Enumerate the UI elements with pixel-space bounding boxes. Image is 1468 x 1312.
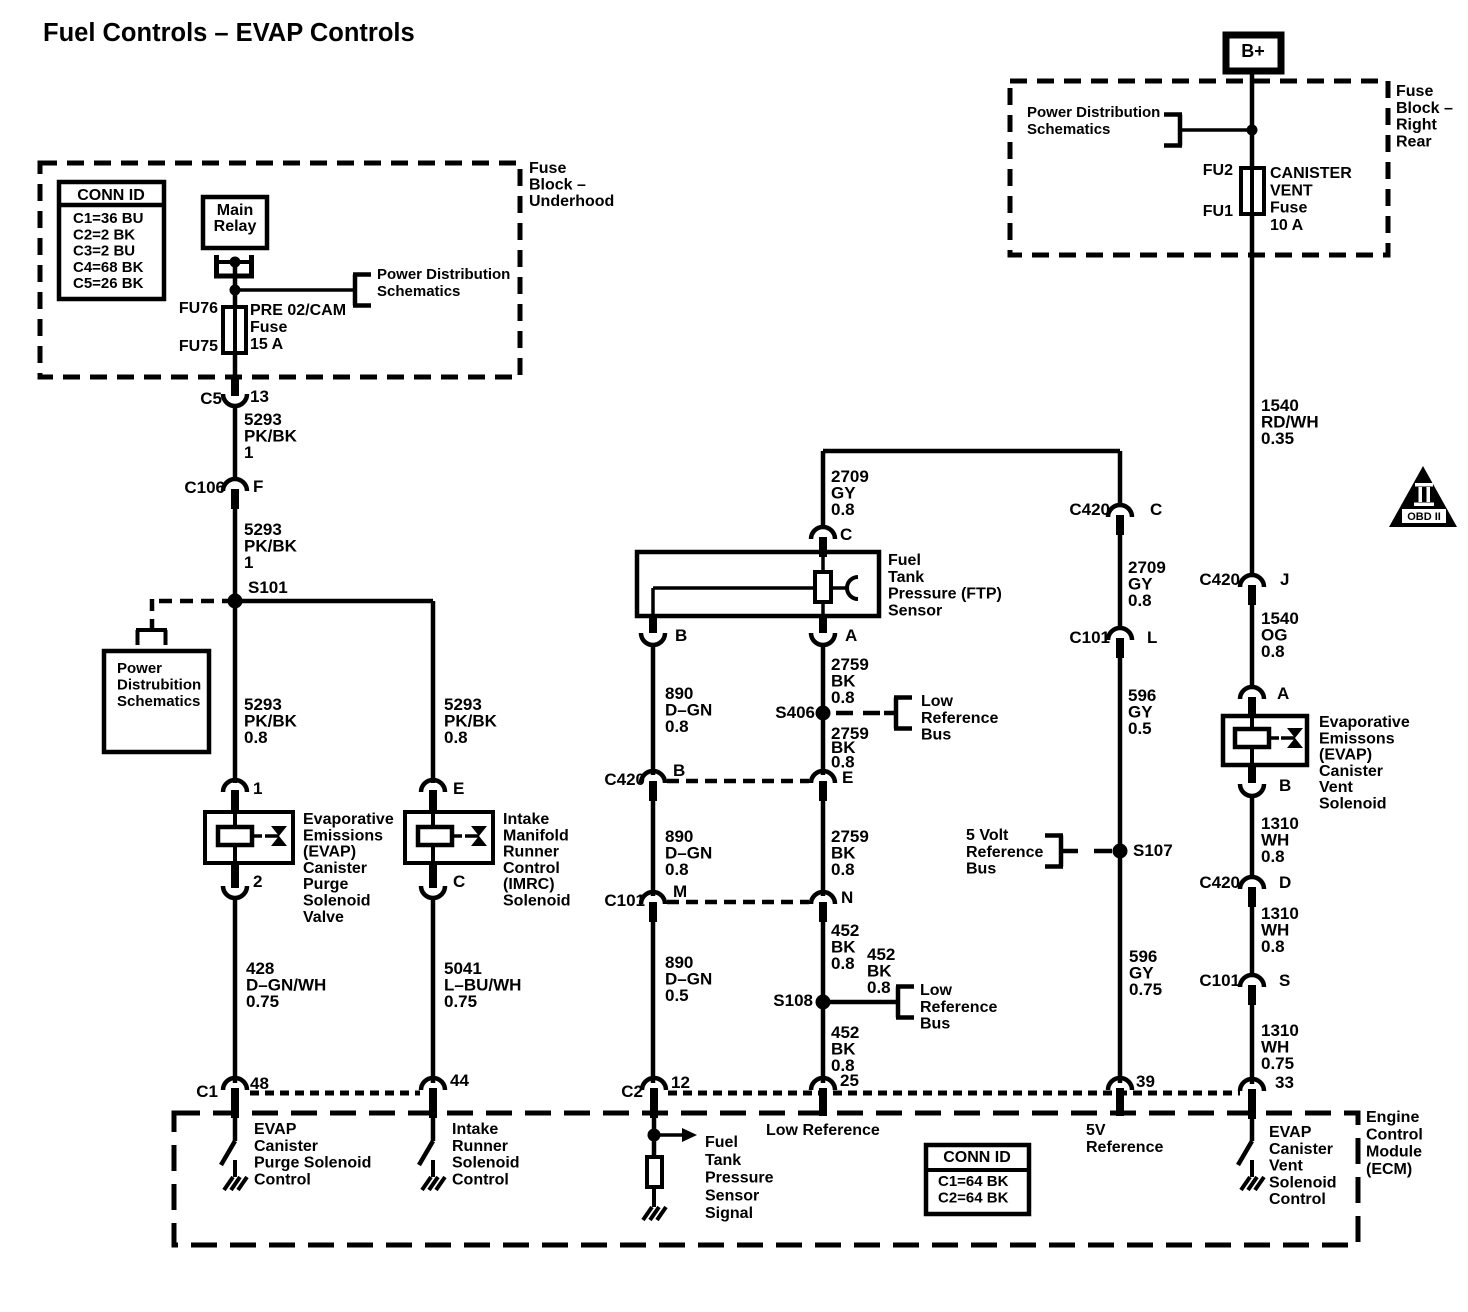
svg-text:D: D [1279,873,1291,892]
svg-text:Control: Control [452,1171,509,1188]
wire 1310 WH 0.8 (D to C101 S) [1250,907,1255,975]
svg-text:C1=64 BK: C1=64 BK [938,1173,1009,1190]
resistor R (FTP pulldown) [647,1157,662,1187]
wire 452 BK 0.8 (N to S108) [821,922,826,1002]
svg-text:Schematics: Schematics [117,693,200,710]
fuse block right rear dashed box [1010,81,1388,255]
svg-text:Solenoid: Solenoid [303,893,371,910]
svg-text:Manifold: Manifold [503,827,569,844]
solenoid L: EVAP canister vent solenoid [1223,716,1307,765]
svg-text:39: 39 [1136,1072,1155,1091]
svg-text:Purge: Purge [303,876,348,893]
wire bracket to S107 [1061,849,1078,854]
svg-text:5V: 5V [1086,1122,1106,1139]
svg-text:Canister: Canister [303,860,367,877]
svg-text:0.75: 0.75 [246,992,279,1011]
wire 890 D-GN 0.5 (M to C2-12) [651,922,656,1083]
connector C101 pin M [641,892,665,904]
svg-text:Evaporative: Evaporative [303,811,394,828]
svg-text:C3=2 BU: C3=2 BU [73,243,135,260]
svg-text:C2=2 BK: C2=2 BK [73,226,135,243]
arrow: fuel tank pressure sensor signal [654,1133,682,1137]
svg-text:B+: B+ [1241,41,1265,61]
svg-text:B: B [673,761,685,780]
wire S101 right branch [235,599,433,604]
svg-text:Control: Control [254,1171,311,1188]
node: junction at B+ feed [1247,125,1258,136]
svg-text:Reference: Reference [966,844,1043,861]
svg-text:1: 1 [244,553,253,572]
svg-text:Distrubition: Distrubition [117,677,201,694]
wire 1540 RD/WH 0.35 [1250,214,1255,575]
svg-text:10 A: 10 A [1270,217,1304,234]
svg-text:(EVAP): (EVAP) [303,844,356,861]
ground (FTP signal) [652,1187,656,1207]
svg-text:Vent: Vent [1269,1158,1303,1175]
svg-text:Fuel Controls – EVAP Controls: Fuel Controls – EVAP Controls [43,19,415,47]
svg-text:Control: Control [503,860,560,877]
svg-text:S107: S107 [1133,841,1173,860]
svg-text:Reference: Reference [920,999,997,1016]
svg-text:C420: C420 [1199,873,1240,892]
node: splice S406 [816,706,831,721]
connector C2 pin 12 [642,1078,666,1090]
FTP sensor internal wire and resistor [821,543,825,572]
wire 596 GY 0.5 (L to S107) [1118,658,1123,851]
wire to power distribution bracket [235,288,353,292]
svg-text:Bus: Bus [920,1016,950,1033]
wire 596 GY 0.75 (S107 to 39) [1118,851,1123,1083]
CONN ID table (ECM) [926,1145,1029,1214]
svg-text:PRE 02/CAM: PRE 02/CAM [250,302,346,319]
wire 890 D-GN 0.8 (B to C420) [651,645,656,775]
svg-text:Solenoid: Solenoid [1269,1174,1337,1191]
svg-text:C1: C1 [196,1082,218,1101]
svg-text:Runner: Runner [503,844,559,861]
svg-text:Underhood: Underhood [529,193,614,210]
svg-text:Canister: Canister [1319,763,1383,780]
svg-text:Fuse: Fuse [250,319,287,336]
svg-text:0.8: 0.8 [444,728,468,747]
connector C1/C2 dotted line (left) [250,1091,420,1096]
svg-text:1: 1 [253,779,262,798]
svg-text:0.8: 0.8 [1128,591,1152,610]
svg-text:N: N [841,888,853,907]
svg-text:Right: Right [1396,117,1438,134]
wire S108 to low reference bus [830,1000,897,1005]
ECM driver: intake runner solenoid control switch [431,1114,436,1141]
bracket: power distribution schematics (underhood) [353,275,358,306]
svg-text:C420: C420 [1199,570,1240,589]
svg-text:33: 33 [1275,1073,1294,1092]
svg-text:C420: C420 [604,770,645,789]
wire 1310 WH 0.8 (B to C420 D) [1250,796,1255,877]
svg-text:Solenoid: Solenoid [503,893,571,910]
svg-text:S101: S101 [248,578,288,597]
wire from relay to junction [233,264,238,290]
svg-text:Solenoid: Solenoid [452,1155,520,1172]
ECM driver: EVAP vent solenoid control switch [1250,1119,1255,1141]
wire 5293 PK/BK 1 (C106 to S101) [233,509,238,601]
connector pin 2 (EVAP purge solenoid) [223,886,247,898]
svg-text:5 Volt: 5 Volt [966,827,1009,844]
wire 2709 GY 0.8 (FTP C up and over) [821,451,826,527]
ground (vent driver) [1250,1160,1254,1177]
svg-text:L: L [1147,628,1157,647]
svg-text:Fuel: Fuel [705,1134,738,1151]
svg-text:Low Reference: Low Reference [766,1122,880,1139]
svg-text:A: A [845,626,857,645]
sensor: fuel tank pressure sensor box [637,552,879,616]
svg-text:Sensor: Sensor [888,602,942,619]
svg-text:Evaporative: Evaporative [1319,714,1410,731]
svg-text:Emissons: Emissons [1319,730,1395,747]
svg-text:Engine: Engine [1366,1109,1419,1126]
svg-text:0.8: 0.8 [867,978,891,997]
wire 2759 BK 0.8 (E to N) [821,801,826,896]
connector C1/C2 dotted line (right) [668,1091,1240,1096]
svg-text:C2=64 BK: C2=64 BK [938,1190,1009,1207]
svg-text:0.8: 0.8 [1261,642,1285,661]
svg-text:A: A [1277,684,1289,703]
svg-text:Reference: Reference [921,710,998,727]
node: splice S101 [228,594,243,609]
connector pin 1 (EVAP purge solenoid) [223,780,247,792]
connector C420 pin J [1240,575,1264,587]
svg-text:0.5: 0.5 [665,986,689,1005]
svg-text:C1=36 BU: C1=36 BU [73,210,143,227]
svg-text:Fuse: Fuse [1270,200,1307,217]
svg-text:C: C [453,872,465,891]
wire FTP signal inside ECM [652,1114,657,1157]
svg-text:Emissions: Emissions [303,827,383,844]
svg-text:M: M [673,882,687,901]
svg-text:0.8: 0.8 [1261,847,1285,866]
svg-text:0.8: 0.8 [831,860,855,879]
svg-text:C101: C101 [1069,628,1110,647]
svg-text:C101: C101 [1199,971,1240,990]
wire junction to fuse FU76 [233,290,238,308]
svg-text:Pressure (FTP): Pressure (FTP) [888,586,1002,603]
svg-text:Vent: Vent [1319,779,1353,796]
svg-text:FU2: FU2 [1203,162,1233,179]
connector C101 pin S [1240,975,1264,987]
svg-text:FU1: FU1 [1203,203,1233,220]
connector pin A (FTP sensor) [819,614,827,633]
svg-text:Block –: Block – [529,177,586,194]
svg-text:Module: Module [1366,1144,1422,1161]
svg-text:Main: Main [217,202,253,219]
bracket: power distribution schematics (right rear) [1178,115,1183,146]
svg-text:48: 48 [250,1074,269,1093]
connector C420 pin D [1240,877,1264,889]
svg-text:Schematics: Schematics [1027,121,1110,138]
power distrubition schematics box [104,651,209,752]
connector pin B (vent solenoid) [1248,764,1256,783]
connector pin B (FTP sensor) [649,614,657,633]
fuse FU76/FU75 PRE O2/CAM 15A [223,307,246,353]
svg-text:VENT: VENT [1270,182,1313,199]
bracket over power distrubition box [136,628,167,632]
svg-text:F: F [253,477,263,496]
power feed B+ [1226,35,1281,71]
svg-text:C101: C101 [604,891,645,910]
svg-text:Control: Control [1269,1191,1326,1208]
svg-text:1: 1 [244,443,253,462]
connector pin A (vent solenoid) [1240,687,1264,699]
svg-text:Valve: Valve [303,909,344,926]
ground (purge driver) [233,1160,237,1177]
svg-text:0.75: 0.75 [444,992,477,1011]
svg-text:Canister: Canister [254,1138,318,1155]
svg-text:Fuel: Fuel [888,552,921,569]
svg-text:Canister: Canister [1269,1141,1333,1158]
svg-text:(EVAP): (EVAP) [1319,747,1372,764]
wire 1540 OG 0.8 (J to A) [1250,605,1255,687]
connector pin 44 [421,1078,445,1090]
wire 2759 BK 0.8 (A to S406) [821,645,826,713]
connector C420 pin C [1108,505,1132,517]
svg-text:Fuse: Fuse [1396,83,1433,100]
svg-text:Reference: Reference [1086,1139,1163,1156]
wire 1310 WH 0.75 (S to 33) [1250,1005,1255,1084]
svg-text:Block –: Block – [1396,100,1453,117]
svg-text:Tank: Tank [888,569,924,586]
wire fuse to connector C5 [233,353,238,378]
svg-text:C5: C5 [200,389,222,408]
fuse block underhood dashed box [40,163,520,377]
svg-text:2: 2 [253,872,262,891]
dashed connector line B-E [667,779,809,784]
svg-text:Fuse: Fuse [529,160,566,177]
relay K: Main Relay box [203,197,267,248]
dashed connector line M-N [667,900,809,905]
node: junction to power distribution [230,285,241,296]
wire 452 BK 0.8 (S108 to 25) [821,1002,826,1083]
svg-text:EVAP: EVAP [1269,1124,1312,1141]
wire 5293 PK/BK 1 (C5 to C106) [233,405,238,480]
svg-text:0.8: 0.8 [665,717,689,736]
svg-text:CANISTER: CANISTER [1270,165,1352,182]
solenoid L: IMRC solenoid [405,812,493,863]
bracket: 5 volt reference bus [1059,836,1064,867]
svg-text:0.8: 0.8 [244,728,268,747]
svg-text:13: 13 [250,387,269,406]
svg-text:0.8: 0.8 [831,688,855,707]
wire 5041 L-BU/WH 0.75 [431,896,436,1083]
svg-text:Low: Low [921,693,954,710]
connector pin E (IMRC solenoid) [421,780,445,792]
connector C420 pin E [811,771,835,783]
FTP sensor internal line to pin B [653,586,817,590]
svg-text:Sensor: Sensor [705,1187,759,1204]
svg-text:C: C [1150,500,1162,519]
wire 428 D-GN/WH 0.75 [233,896,238,1083]
svg-text:S406: S406 [775,703,815,722]
svg-text:Solenoid: Solenoid [1319,796,1387,813]
svg-text:C420: C420 [1069,500,1110,519]
svg-text:Signal: Signal [705,1205,753,1222]
svg-text:Runner: Runner [452,1138,508,1155]
svg-text:0.8: 0.8 [665,860,689,879]
svg-text:Control: Control [1366,1126,1423,1143]
svg-text:0.75: 0.75 [1261,1054,1294,1073]
connector pin 39 [1108,1078,1132,1090]
svg-text:S: S [1279,971,1290,990]
connector C101 pin N [811,892,835,904]
connector pin 25 [811,1078,835,1090]
svg-text:CONN ID: CONN ID [943,1149,1011,1166]
connector C106 pin F [223,479,247,491]
svg-text:Purge Solenoid: Purge Solenoid [254,1155,371,1172]
svg-text:25: 25 [840,1071,859,1090]
svg-text:Bus: Bus [966,861,996,878]
connector pin 33 [1240,1079,1264,1091]
connector pin C (IMRC solenoid) [421,886,445,898]
svg-text:CONN ID: CONN ID [77,187,145,204]
svg-text:Schematics: Schematics [377,283,460,300]
wire resistor to ground [652,1187,656,1194]
wire branch down to IMRC [431,601,436,783]
svg-text:E: E [842,768,853,787]
node: splice S108 [816,995,831,1010]
main relay socket cup [214,255,219,276]
svg-text:Power Distribution: Power Distribution [377,266,510,283]
svg-text:C4=68 BK: C4=68 BK [73,259,144,276]
wire 2759 BK 0.8 (S406 to E) [821,713,826,775]
svg-text:Rear: Rear [1396,133,1432,150]
svg-text:Bus: Bus [921,727,951,744]
svg-text:Intake: Intake [503,811,549,828]
svg-text:Low: Low [920,982,953,999]
svg-text:12: 12 [671,1073,690,1092]
connector C420 pin B [641,771,665,783]
svg-text:S108: S108 [773,991,813,1010]
svg-text:E: E [453,779,464,798]
svg-text:(ECM): (ECM) [1366,1161,1412,1178]
svg-text:OBD II: OBD II [1407,511,1441,523]
svg-text:0.35: 0.35 [1261,429,1294,448]
connector C1 pin 48 [223,1078,247,1090]
ECM dashed box [174,1113,1358,1245]
svg-text:C106: C106 [184,478,225,497]
bracket: low reference bus (S108) [896,987,901,1018]
CONN ID table (underhood) [59,182,164,299]
svg-text:EVAP: EVAP [254,1121,297,1138]
svg-text:(IMRC): (IMRC) [503,876,555,893]
wire bracket to B+ feed [1180,128,1252,132]
svg-text:C5=26 BK: C5=26 BK [73,275,144,292]
svg-text:FU76: FU76 [179,300,218,317]
svg-text:0.8: 0.8 [1261,937,1285,956]
dashed branch S101 to power distribution [152,599,235,604]
svg-text:Power Distribution: Power Distribution [1027,104,1160,121]
wire S101 down 5293 PK/BK 0.8 [233,601,238,783]
ECM driver: EVAP purge solenoid control switch [233,1114,238,1141]
svg-text:44: 44 [450,1071,469,1090]
svg-text:Pressure: Pressure [705,1170,774,1187]
bracket: low reference bus (S406) [894,698,899,729]
wire 890 D-GN 0.8 (C420 to C101) [651,801,656,896]
solenoid L: EVAP canister purge solenoid valve [205,812,293,863]
svg-text:J: J [1280,570,1289,589]
svg-text:15 A: 15 A [250,336,284,353]
wire B+ down [1250,71,1255,168]
svg-text:Relay: Relay [214,218,257,235]
connector C5 pin 13 [231,377,239,396]
svg-text:C2: C2 [621,1082,643,1101]
OBD II symbol [1389,466,1457,527]
svg-text:0.75: 0.75 [1129,980,1162,999]
node: splice S107 [1113,844,1128,859]
svg-text:0.5: 0.5 [1128,719,1152,738]
svg-text:Power: Power [117,660,162,677]
connector C101 pin L [1108,628,1132,640]
svg-text:Tank: Tank [705,1152,741,1169]
svg-text:FU75: FU75 [179,338,218,355]
svg-text:0.8: 0.8 [831,954,855,973]
svg-text:B: B [675,626,687,645]
fuse FU2/FU1 CANISTER VENT 10A [1241,168,1264,214]
svg-text:0.8: 0.8 [831,500,855,519]
connector pin C (FTP sensor) [811,527,835,539]
dashed branch S406 to low reference bus [836,711,884,716]
svg-text:Intake: Intake [452,1121,498,1138]
FTP sensor wiper arc [847,577,858,599]
ground (runner driver) [431,1160,435,1177]
node: FTP signal junction [648,1129,661,1142]
svg-text:C: C [840,525,852,544]
svg-text:B: B [1279,776,1291,795]
wire 2709 GY 0.8 (C420 to C101) [1118,535,1123,628]
